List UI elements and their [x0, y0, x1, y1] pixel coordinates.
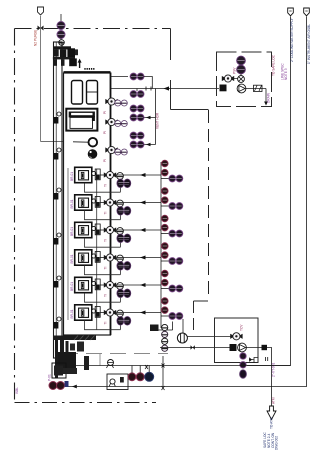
skid bit 2 [77, 342, 84, 352]
elbow fitting [262, 345, 268, 350]
unit row 5 [70, 277, 161, 302]
sample stack 1 [162, 160, 169, 176]
bracket M [254, 358, 259, 364]
pump wheel 1 [49, 382, 57, 390]
panel U1 outline [64, 73, 111, 335]
drain pipe upper [187, 336, 232, 338]
wire to manifold [60, 39, 62, 41]
valve small [191, 345, 195, 349]
svg-text:TO SAFE LOC: TO SAFE LOC [272, 54, 276, 76]
hopper dark band [69, 112, 95, 118]
sample stack 2 [162, 188, 169, 204]
collector bottom fitting [150, 325, 159, 332]
light pair 1 [115, 100, 128, 106]
note block bottom [263, 432, 278, 450]
border right step horizontal [171, 109, 209, 111]
column nozzle 3 [54, 188, 61, 200]
light pair 2 [115, 121, 128, 127]
panel right edge thick [110, 73, 112, 336]
valve V1 [38, 26, 44, 31]
svg-text:2"-VT-001: 2"-VT-001 [272, 363, 276, 377]
filter block 2 [230, 344, 237, 351]
skid bit 3 [84, 356, 89, 370]
flow arrow main [164, 86, 170, 90]
skid base plate [53, 336, 96, 341]
panel top edge thick [64, 71, 111, 73]
skid pump inner [54, 366, 63, 376]
indicator circle [89, 138, 98, 147]
pipe riser B [59, 17, 307, 387]
column nozzle 1 [54, 112, 61, 124]
svg-text:DWG 002: DWG 002 [274, 436, 278, 450]
pump box [215, 318, 259, 363]
sample stack 4 [162, 243, 169, 259]
utility header lower [75, 365, 291, 367]
node N2 inlet riser [40, 16, 42, 142]
bus wire left of units [67, 168, 69, 320]
unit row 3 [70, 222, 161, 247]
border step vertical [170, 29, 172, 61]
meter stubs [132, 366, 149, 373]
pump P1 drain stack [240, 353, 246, 359]
battery limit border top [15, 28, 171, 30]
svg-text:PI: PI [103, 111, 107, 114]
flag OSBL A [288, 8, 294, 16]
bubble pair C [130, 105, 144, 112]
svg-text:ISBL: ISBL [15, 387, 19, 394]
battery limit border bottom [15, 402, 157, 404]
drain pipe lower [160, 347, 230, 349]
gauge PG3 [105, 146, 117, 153]
tick mark 2 [162, 364, 165, 368]
sample pair 5 [161, 285, 183, 292]
pipe to vent stack [247, 348, 272, 407]
pump P1 drain stack 2 [240, 362, 246, 368]
svg-text:PI: PI [103, 159, 107, 162]
drain trap stack [162, 324, 168, 351]
unit row 1 [70, 167, 161, 192]
svg-text:TO ATM: TO ATM [270, 417, 274, 429]
pump junction box [65, 381, 69, 387]
svg-text:NOTE 3: NOTE 3 [284, 68, 288, 80]
bus wire nodes [96, 169, 98, 330]
aux box pump [109, 379, 115, 386]
gauge PG2 [105, 118, 117, 125]
door divider [87, 91, 98, 93]
battery limit border left [14, 29, 16, 403]
manifold block C [67, 48, 75, 57]
hopper inner [70, 117, 93, 128]
manifold leg 1 [54, 59, 58, 65]
unit row 6 [70, 305, 161, 330]
unit row 4 [70, 250, 161, 275]
svg-text:1" INSTRUMENT AIR OSBL: 1" INSTRUMENT AIR OSBL [307, 24, 311, 64]
arrow vent to atm [267, 406, 276, 420]
wire FG [234, 74, 241, 79]
link wire [162, 356, 164, 387]
light pair 3 [115, 149, 128, 155]
aux box [107, 374, 128, 390]
tick mark 1 [145, 365, 148, 369]
column nozzle 2 [54, 148, 61, 160]
indicator lamp [88, 150, 97, 159]
sample stack 6 [162, 298, 169, 314]
bubble pair E [130, 132, 144, 139]
indicator wire [73, 141, 88, 143]
flag OSBL B [304, 8, 310, 16]
skid leg 3 [66, 341, 69, 367]
bubble pair B [130, 89, 144, 98]
wire inlet top [60, 14, 62, 21]
filter block [220, 85, 227, 92]
main pipe to vent box [111, 88, 220, 90]
collector2 wire [155, 89, 157, 145]
sample pair 6 [161, 313, 183, 320]
svg-text:2" COOLING WATER SUPPLY: 2" COOLING WATER SUPPLY [290, 17, 294, 62]
skid pump casing [52, 363, 66, 378]
aux box mark [120, 377, 124, 383]
manifold leg 3 [69, 58, 77, 66]
column nozzle 4 [54, 233, 61, 245]
cabinet door left [72, 81, 83, 105]
svg-text:P-01: P-01 [48, 374, 52, 381]
valve ball [238, 76, 245, 83]
column nozzle 5 [54, 276, 61, 288]
unit row 2 [70, 195, 161, 220]
wire to column [41, 141, 74, 143]
border lower step vertical [193, 301, 195, 330]
sight glass FG2 [177, 333, 187, 343]
wire vent drop [265, 89, 267, 104]
border lower gray dashes [62, 353, 168, 355]
strainer fitting [254, 85, 263, 91]
note block right [281, 63, 289, 80]
gauge PG1 [105, 98, 117, 105]
manifold block A [54, 49, 59, 56]
skid leg 2 [60, 340, 64, 371]
border right segment upper [170, 80, 172, 110]
svg-text:TCV: TCV [240, 324, 244, 331]
svg-text:PI: PI [103, 131, 107, 134]
skid leg 1 [55, 340, 58, 378]
meter 1 [128, 373, 136, 381]
sample pair 2 [161, 203, 183, 210]
sample pair 3 [161, 230, 183, 237]
gauge FG [222, 75, 234, 82]
column T1 shell [54, 42, 63, 358]
vent teeth [85, 68, 94, 70]
skid bar [63, 368, 77, 374]
pump P1 drain pot [240, 370, 247, 378]
bubble pair F [130, 141, 155, 148]
manifold side block [75, 49, 78, 55]
valve V3 [57, 31, 65, 39]
purge arrow up [79, 62, 81, 68]
pipe riser A [247, 17, 291, 366]
svg-text:DRAIN: DRAIN [267, 92, 271, 103]
bubble pair D [130, 114, 155, 121]
drain header stub [157, 322, 173, 331]
bubble PSV bottom [237, 65, 246, 74]
bubble pair A [130, 73, 144, 80]
sample pair 4 [161, 258, 183, 265]
border lower step horizontal [194, 300, 209, 302]
skid pump body [58, 352, 76, 372]
valve small V4 [59, 40, 65, 46]
vent box dashed [217, 52, 272, 107]
sample stack 5 [162, 270, 169, 286]
pump P1 [238, 343, 247, 352]
valve V2 [57, 22, 65, 30]
svg-text:N2 PURGE: N2 PURGE [33, 30, 37, 46]
bubble PSV top [237, 56, 246, 65]
sample stack 3 [162, 215, 169, 231]
hopper box [66, 109, 97, 131]
wire stub row A [111, 76, 129, 78]
skid hatch [74, 336, 95, 341]
arrow utility lower [72, 385, 77, 389]
wire blower out [246, 88, 266, 90]
pump wheel 2 [57, 382, 65, 390]
gauge CV [230, 333, 242, 340]
aux pump small [107, 360, 114, 369]
meter 3 [145, 372, 154, 381]
svg-text:ATM: ATM [272, 397, 276, 404]
manifold top bar [54, 46, 72, 49]
cabinet door right [87, 81, 98, 105]
svg-text:PSV: PSV [233, 67, 237, 74]
manifold base bar [53, 57, 75, 59]
manifold block B [60, 49, 66, 57]
svg-text:VENT HDR: VENT HDR [156, 112, 160, 129]
collector wire main [160, 162, 162, 328]
flag N2 connector [38, 7, 44, 15]
column inner wall [55, 42, 57, 358]
column nozzle 6 [54, 317, 61, 329]
skid bit 1 [70, 344, 75, 351]
pair A elbow [144, 77, 152, 89]
sample pair 1 [161, 175, 183, 182]
meter 2 [136, 373, 144, 381]
arrow vent drop [264, 102, 268, 106]
border right vertical [208, 110, 210, 298]
hopper band stub [92, 116, 95, 121]
blower B1 [237, 84, 246, 93]
manifold leg 2 [61, 59, 65, 65]
sight glass riser [182, 319, 184, 333]
